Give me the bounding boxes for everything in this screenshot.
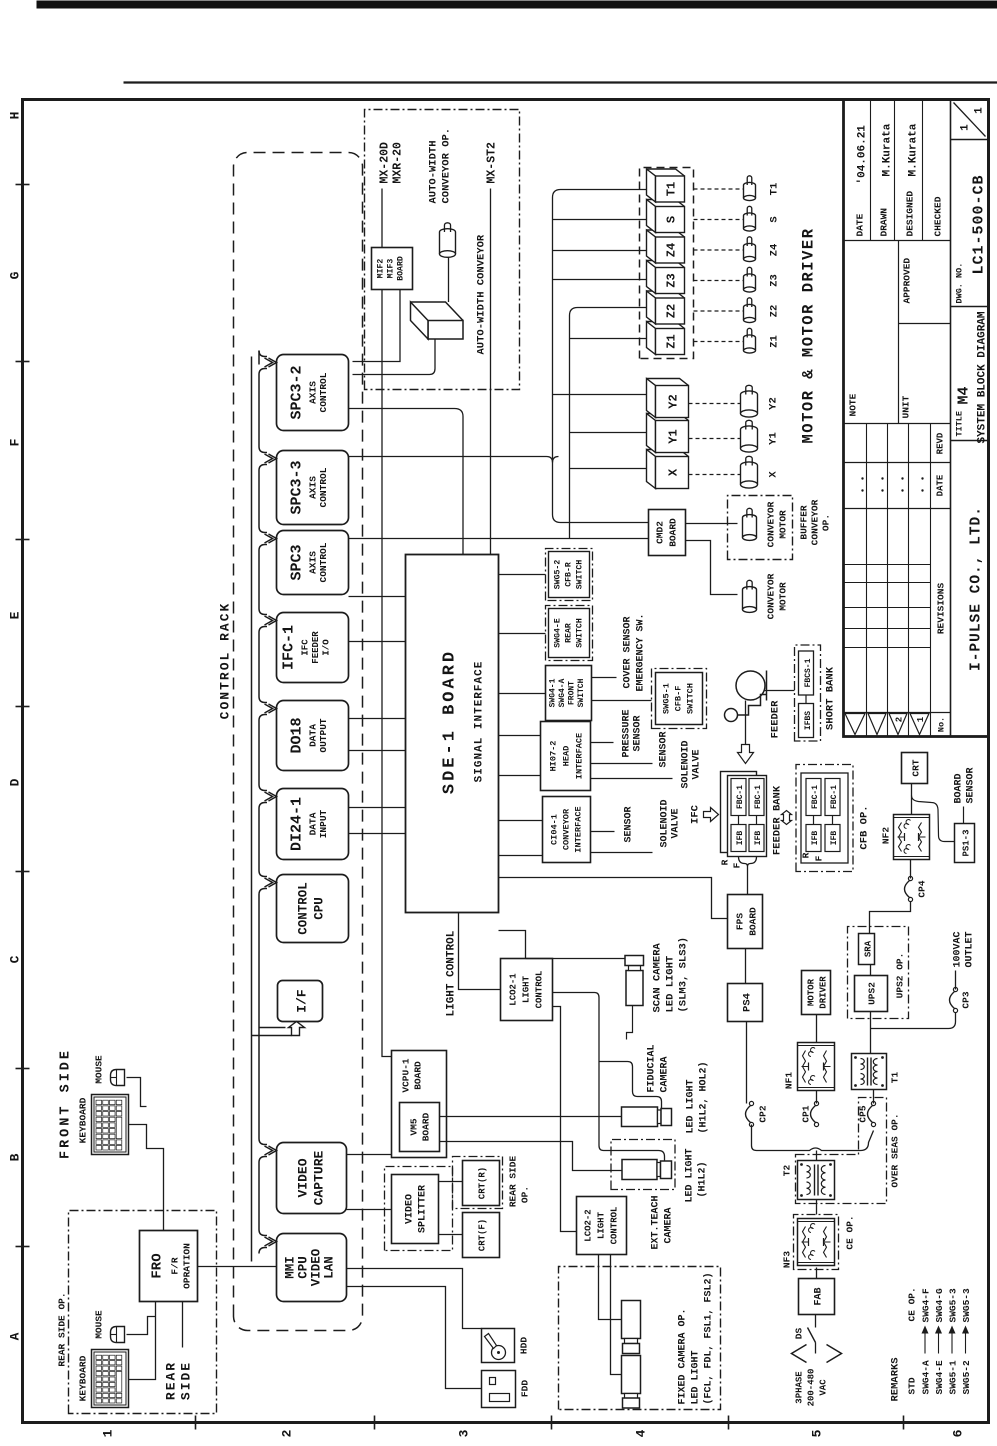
wire SPC3-3 brace stem	[348, 455, 546, 457]
svg-text:FEEDER BANK: FEEDER BANK	[771, 785, 783, 855]
svg-text:SWG4-A: SWG4-A	[920, 1359, 931, 1394]
breaker CP2	[749, 1122, 753, 1126]
svg-text:OPRATION: OPRATION	[181, 1242, 192, 1288]
svg-text:DATE: DATE	[935, 474, 945, 496]
breaker CP5	[871, 1122, 875, 1126]
svg-text:FPS: FPS	[734, 912, 745, 929]
svg-text:OVER SEAS OP.: OVER SEAS OP.	[889, 1113, 900, 1187]
wire CP4 to NF2	[909, 859, 911, 878]
svg-text:200-480: 200-480	[806, 1368, 816, 1406]
svg-text:1: 1	[973, 106, 985, 113]
VIDEO SPLITTER chain box	[384, 1166, 452, 1250]
svg-text:SPC3: SPC3	[288, 544, 305, 580]
auto-width conveyor 3D box	[410, 302, 463, 339]
svg-text:STD: STD	[906, 1377, 917, 1394]
svg-text:I/F: I/F	[294, 989, 309, 1013]
svg-text:A: A	[7, 1332, 22, 1340]
svg-text:SWG4-E: SWG4-E	[934, 1359, 945, 1394]
svg-text:CONVEYOR: CONVEYOR	[765, 573, 776, 619]
wire NF1 to MOTOR DRIVER	[815, 1014, 817, 1042]
svg-text:CONTROL: CONTROL	[318, 542, 329, 582]
svg-text:SRA: SRA	[863, 940, 873, 957]
svg-text:DESIGNED: DESIGNED	[904, 190, 915, 236]
svg-text:EXT.TEACH: EXT.TEACH	[650, 1195, 661, 1249]
line B branch to Z1	[569, 337, 646, 339]
svg-text:SENSOR: SENSOR	[658, 731, 669, 767]
svg-text:DO18: DO18	[288, 717, 305, 753]
svg-text:LIGHT: LIGHT	[596, 1211, 606, 1239]
svg-text:DS: DS	[793, 1327, 804, 1339]
svg-text:1: 1	[959, 123, 971, 130]
driver module T1	[646, 169, 684, 202]
mouse icon rear	[110, 1326, 124, 1342]
wire SDE-1 to FPS BOARD	[498, 877, 727, 918]
svg-text:SDE-1 BOARD: SDE-1 BOARD	[440, 648, 459, 793]
staff rows	[869, 99, 871, 240]
line B branch to Y1	[569, 431, 646, 433]
svg-text:INPUT: INPUT	[318, 809, 329, 838]
wire PS1-3 to board sensor label	[962, 806, 964, 823]
svg-text:OP.: OP.	[519, 1185, 530, 1202]
scan camera icon	[626, 970, 643, 1005]
svg-text:DATA: DATA	[307, 723, 318, 746]
board MMI CPU VIDEO LAN	[276, 1233, 346, 1301]
svg-text:IFBS: IFBS	[804, 710, 813, 729]
svg-text:SIGNAL INTERFACE: SIGNAL INTERFACE	[473, 660, 485, 782]
svg-text:DI24-1: DI24-1	[288, 796, 305, 850]
motor S	[743, 215, 755, 228]
svg-text:T2: T2	[781, 1164, 792, 1176]
motor Z4	[743, 246, 755, 259]
CFB FBC-1 row1	[806, 778, 821, 815]
NF1 filter	[797, 1042, 834, 1090]
driver module Z1	[646, 321, 684, 354]
disconnect DS	[814, 1342, 816, 1353]
svg-text:LED LIGHT: LED LIGHT	[684, 1148, 695, 1202]
scan artifact: black bar at right page edge	[36, 0, 997, 8]
svg-text:REAR SIDE: REAR SIDE	[507, 1155, 518, 1207]
sensor labels under HI07-2	[590, 741, 613, 743]
MOTOR DRIVER box	[801, 970, 830, 1014]
SWG4-1 SWG4-A FRONT SWITCH	[545, 665, 591, 720]
branch scan camera body	[626, 1005, 632, 1039]
svg-text:(H1L2): (H1L2)	[696, 1161, 708, 1197]
mouse icon front	[110, 1069, 124, 1085]
svg-text:PS1-3: PS1-3	[961, 829, 971, 856]
motor Y1	[740, 429, 757, 448]
line B branch to X	[569, 467, 646, 469]
REAR SIDE OP chain box around CRT(R)	[452, 1156, 502, 1208]
svg-text:CI04-1: CI04-1	[549, 814, 559, 845]
wire CP5 to T1	[872, 1089, 874, 1103]
conveyor motor (std)	[742, 589, 756, 609]
wire CP1 to NF1	[815, 1090, 817, 1103]
fixed camera 2 icon	[621, 1355, 640, 1393]
svg-text:SENSOR: SENSOR	[965, 767, 976, 803]
svg-text:D: D	[7, 778, 22, 786]
svg-text:1: 1	[100, 1429, 115, 1437]
svg-text:CP2: CP2	[757, 1105, 768, 1122]
buffer conveyor motor	[742, 517, 756, 537]
svg-text:AXIS: AXIS	[307, 380, 318, 403]
wire CP3 to outlet label	[954, 970, 956, 989]
board SPC3-3 AXIS CONTROL	[276, 450, 348, 524]
svg-text:SWG5-3: SWG5-3	[961, 1287, 972, 1322]
svg-text:CONTROL: CONTROL	[318, 467, 329, 507]
SRA box	[858, 933, 874, 964]
svg-text:5: 5	[809, 1429, 824, 1437]
BUFFER CONVEYOR OP. chain box	[727, 495, 792, 559]
svg-text:SCAN CAMERA: SCAN CAMERA	[651, 942, 663, 1012]
feeder bank IFB row1	[731, 824, 746, 851]
svg-text:MOUSE: MOUSE	[93, 1054, 104, 1083]
svg-text:CE OP.: CE OP.	[844, 1215, 855, 1249]
svg-text:FBC-1: FBC-1	[811, 784, 820, 808]
board CONTROL CPU	[276, 874, 348, 942]
svg-text:VAC: VAC	[818, 1378, 828, 1395]
svg-text:100VAC: 100VAC	[952, 931, 963, 967]
svg-text:BOARD: BOARD	[412, 1060, 423, 1089]
svg-text:COVER SENSOR: COVER SENSOR	[622, 616, 633, 688]
svg-text:FRONT SIDE: FRONT SIDE	[58, 1047, 73, 1158]
branch to fiducial led	[599, 1061, 662, 1108]
svg-text:CFB-F: CFB-F	[673, 685, 683, 711]
UPS2 OP. chain box	[847, 926, 908, 1018]
collector line B y=569	[569, 307, 646, 538]
feeder bank FBC-1 row1	[731, 778, 746, 815]
svg-text:OUTLET: OUTLET	[964, 931, 975, 967]
svg-text:UPS2 OP.: UPS2 OP.	[894, 952, 905, 998]
svg-text:3PHASE: 3PHASE	[794, 1370, 804, 1403]
svg-text:PS4: PS4	[741, 993, 753, 1012]
svg-text:T1: T1	[664, 181, 678, 195]
svg-text:LAN: LAN	[322, 1256, 336, 1279]
svg-text:MMI: MMI	[283, 1256, 297, 1279]
wire SDE-1 to MX-ST2	[489, 188, 491, 554]
svg-text:F: F	[7, 438, 22, 446]
svg-text:No.: No.	[936, 716, 946, 731]
svg-text:REAR SIDE OP.: REAR SIDE OP.	[56, 1292, 67, 1366]
svg-text:MXR-20: MXR-20	[391, 141, 404, 183]
svg-text:CPU: CPU	[312, 897, 326, 920]
wire feeder to block arrow	[744, 700, 746, 744]
bottom row cells	[950, 439, 988, 441]
svg-text:CPU: CPU	[296, 1256, 310, 1279]
CRT(R) box	[462, 1160, 499, 1205]
SHORT BANK chain box	[794, 645, 820, 741]
svg-text:FIDUCIAL: FIDUCIAL	[646, 1044, 657, 1092]
wire FAB to NF3	[815, 1267, 817, 1278]
svg-text:AUTO-WIDTH: AUTO-WIDTH	[427, 140, 439, 203]
wires rear keyboard/mouse to FRO	[128, 1301, 155, 1379]
LCO2-2 LIGHT CONTROL box	[576, 1196, 626, 1254]
board SPC3 AXIS CONTROL	[276, 530, 348, 594]
wire UPS2 to SRA	[869, 964, 871, 975]
svg-text:SENSOR: SENSOR	[623, 806, 634, 842]
svg-text:IFC: IFC	[689, 804, 701, 824]
svg-text:SWG5-2: SWG5-2	[961, 1359, 972, 1394]
svg-text:FDD: FDD	[519, 1379, 530, 1396]
bus inner line with taps into each board	[258, 1252, 260, 1254]
svg-text:MX-ST2: MX-ST2	[485, 141, 498, 183]
svg-text:(SLM3, SLS3): (SLM3, SLS3)	[677, 936, 689, 1012]
svg-text:SOLENOID: SOLENOID	[659, 799, 670, 847]
svg-text:MIF3: MIF3	[386, 258, 395, 278]
OVER SEAS OP. chain outline (L shape)	[795, 1097, 886, 1203]
svg-text:CRT(F): CRT(F)	[477, 1218, 487, 1250]
sensor labels under CI04-1	[590, 830, 614, 832]
svg-text:CONTROL: CONTROL	[296, 882, 310, 935]
svg-text:CP4: CP4	[916, 880, 927, 897]
svg-text:MX-20D: MX-20D	[378, 141, 391, 183]
svg-text:KEYBOARD: KEYBOARD	[77, 1097, 88, 1143]
svg-text:CONVEYOR: CONVEYOR	[765, 501, 776, 547]
svg-text:SIDE: SIDE	[178, 1360, 193, 1399]
board DI24-1 DATA INPUT	[276, 788, 348, 859]
svg-text:Z4: Z4	[768, 243, 780, 256]
svg-text:FBC-1: FBC-1	[736, 784, 745, 808]
wire front switch to SWG5-1	[591, 699, 651, 701]
T1 transformer	[851, 1053, 886, 1089]
svg-text:CAPTURE: CAPTURE	[311, 1150, 326, 1205]
auto-width conveyor motor cylinder	[439, 232, 455, 254]
wire feeder to short bank	[764, 689, 794, 691]
svg-text:SWITCH: SWITCH	[575, 618, 584, 648]
svg-text:S: S	[664, 215, 678, 222]
svg-text:REVD: REVD	[935, 432, 945, 454]
wire VIDEO CAPTURE to VCPU-1	[346, 1153, 391, 1155]
CFB OP. chain box	[796, 764, 853, 871]
svg-text:Z3: Z3	[768, 274, 780, 287]
svg-text:HEAD: HEAD	[561, 745, 571, 766]
svg-text:4: 4	[633, 1429, 648, 1437]
SWG4-E REAR SWITCH chain box	[545, 605, 592, 660]
svg-text:SHORT BANK: SHORT BANK	[824, 666, 836, 730]
breaker CP4	[908, 897, 912, 901]
svg-text:SWG5-2: SWG5-2	[553, 559, 562, 589]
svg-text:M.Kurata: M.Kurata	[907, 123, 919, 176]
VIDEO SPLITTER	[391, 1174, 438, 1243]
svg-text:CONVEYOR: CONVEYOR	[809, 499, 820, 545]
motor X	[740, 465, 757, 484]
fiducial camera icon	[621, 1107, 657, 1127]
keyboard icon rear	[91, 1349, 128, 1407]
svg-text:DRAWN: DRAWN	[878, 207, 889, 236]
svg-text:SYSTEM BLOCK DIAGRAM: SYSTEM BLOCK DIAGRAM	[976, 311, 988, 443]
CFB IFB row1	[806, 824, 821, 851]
svg-text:Z2: Z2	[768, 304, 780, 317]
svg-text:KEYBOARD: KEYBOARD	[77, 1355, 88, 1401]
svg-text:IFC-1: IFC-1	[280, 624, 297, 669]
NOTE cell	[897, 240, 899, 423]
svg-text:TITLE: TITLE	[954, 410, 964, 436]
svg-text:SWG5-1: SWG5-1	[947, 1359, 958, 1394]
svg-text:REAR: REAR	[564, 623, 573, 643]
svg-text:SWITCH: SWITCH	[685, 683, 695, 714]
driver Y2	[646, 378, 688, 417]
svg-text:R: R	[800, 852, 811, 858]
breaker CP3	[953, 1008, 957, 1012]
motor Z3	[743, 276, 755, 289]
breaker CP1	[814, 1122, 818, 1126]
svg-text:LED LIGHT: LED LIGHT	[685, 1079, 696, 1133]
svg-text:SWG4-G: SWG4-G	[934, 1287, 945, 1322]
svg-text:CONTROL: CONTROL	[318, 372, 329, 412]
svg-text:VIDEO: VIDEO	[404, 1193, 415, 1223]
svg-text:LIGHT CONTROL: LIGHT CONTROL	[445, 930, 457, 1016]
svg-text:FRO: FRO	[149, 1253, 165, 1278]
brace feeder bank to FPS wire	[738, 856, 756, 866]
driver module Z3	[646, 260, 684, 293]
svg-text:F/R: F/R	[169, 1257, 180, 1274]
wire rack board to SDE-1 at x=728	[348, 717, 405, 719]
wire rack board to SDE-1 at x=805	[348, 640, 405, 642]
FEEDER BANK shadow rect	[720, 771, 756, 852]
motor T1	[743, 185, 755, 198]
svg-text:VCPU-1: VCPU-1	[400, 1058, 411, 1093]
title block horizontal lines	[949, 99, 951, 736]
svg-text:AXIS: AXIS	[307, 550, 318, 573]
CFB inner rect	[801, 773, 848, 863]
VM5 BOARD	[399, 1102, 439, 1151]
sheet 1/1	[953, 102, 985, 136]
wire SDE-1 to interface board at x=753	[498, 692, 545, 694]
svg-text:LCO2-2: LCO2-2	[583, 1209, 593, 1241]
svg-text:T1: T1	[768, 182, 780, 195]
svg-text:VALVE: VALVE	[670, 808, 681, 838]
svg-text:BOARD: BOARD	[420, 1112, 431, 1141]
wire SDE-1 to interface board at x=711	[498, 734, 540, 736]
CRT box	[901, 752, 927, 783]
svg-text:MOUSE: MOUSE	[93, 1309, 104, 1338]
feeder bank IFB row2	[749, 824, 764, 851]
svg-text:LED LIGHT: LED LIGHT	[690, 1350, 701, 1404]
wire SRA to CP4	[869, 901, 910, 933]
svg-text:BUFFER: BUFFER	[798, 505, 809, 540]
svg-text:MOTOR & MOTOR DRIVER: MOTOR & MOTOR DRIVER	[799, 227, 817, 443]
wire rack board to SDE-1 at x=850	[348, 595, 405, 597]
wire CMD2 to buffer conveyor motor	[685, 522, 737, 524]
T2 transformer	[797, 1160, 834, 1199]
svg-text:M4: M4	[955, 386, 972, 404]
wire SDE-1 to interface board at x=671	[498, 774, 540, 776]
svg-text:Z1: Z1	[768, 335, 780, 348]
svg-text:CFB-R: CFB-R	[564, 562, 573, 587]
svg-text:IFC: IFC	[300, 638, 310, 655]
svg-text:SWG5-3: SWG5-3	[947, 1287, 958, 1322]
svg-text:EMERGENCY SW.: EMERGENCY SW.	[635, 613, 646, 691]
driver X	[646, 449, 688, 488]
collector line A y=552	[552, 189, 650, 522]
svg-text:CRT: CRT	[910, 759, 921, 776]
svg-text:CONTROL: CONTROL	[609, 1206, 619, 1244]
svg-text:BOARD: BOARD	[396, 256, 405, 281]
driver Y1	[646, 413, 688, 452]
wire rack board to SDE-1 at x=613	[348, 832, 405, 834]
wire CP2 junction line down to CP5 with hop	[751, 1124, 873, 1150]
NF3 filter	[793, 1214, 838, 1269]
svg-text:CAMERA: CAMERA	[663, 1207, 674, 1243]
wire T2 to junction	[815, 1150, 817, 1160]
svg-text:BOARD: BOARD	[667, 517, 678, 546]
wire rear side to FRO	[181, 1301, 183, 1347]
motor Z2	[743, 307, 755, 320]
LCO2-1 LIGHT CONTROL box	[500, 958, 552, 1020]
svg-text:(FCL, FDL, FSL1, FSL2): (FCL, FDL, FSL1, FSL2)	[702, 1272, 714, 1404]
svg-text:SWG4-A: SWG4-A	[558, 678, 567, 707]
fixed camera 1 icon	[621, 1300, 640, 1338]
wire SDE-1 to interface board at x=872	[498, 573, 545, 575]
CFB IFB row2	[825, 824, 840, 851]
IFBS box	[798, 703, 813, 737]
svg-text:CFB OP.: CFB OP.	[858, 805, 870, 849]
svg-text:CHECKED: CHECKED	[932, 196, 943, 236]
svg-text:SWITCH: SWITCH	[575, 559, 584, 589]
svg-text:DRIVER: DRIVER	[818, 975, 828, 1008]
wires MMI to HDD FDD	[346, 1268, 481, 1328]
svg-text:OP.: OP.	[820, 513, 831, 530]
wire SDE-1 to SPC3-2	[348, 408, 463, 554]
svg-text:MOTOR: MOTOR	[777, 509, 788, 538]
svg-text:NF3: NF3	[781, 1250, 792, 1267]
svg-text:IFB: IFB	[754, 830, 763, 845]
wire SDE-1 to interface board at x=626	[498, 819, 542, 821]
svg-text:BOARD: BOARD	[747, 906, 758, 935]
svg-text:H: H	[7, 111, 22, 119]
svg-text:1: 1	[916, 716, 926, 722]
motor Z1	[743, 337, 755, 350]
svg-text:VM5: VM5	[408, 1118, 419, 1135]
svg-text:SWG4-E: SWG4-E	[553, 618, 562, 648]
svg-text:NF1: NF1	[783, 1071, 794, 1088]
3 phase supply chevrons	[791, 1344, 806, 1362]
svg-text:SENSOR: SENSOR	[632, 715, 643, 751]
svg-text:I-PULSE CO., LTD.: I-PULSE CO., LTD.	[968, 506, 984, 671]
wire branch to PS1-3	[911, 795, 954, 841]
wires front keyboard/mouse to FRO	[128, 1124, 163, 1230]
EXT.TEACH chain box	[611, 1139, 675, 1189]
line A branch to S	[552, 218, 646, 220]
wires splitter to CRTs	[438, 1180, 462, 1182]
line A branch to Z3	[552, 278, 646, 280]
svg-text:UPS2: UPS2	[866, 981, 877, 1004]
board VIDEO CAPTURE	[276, 1142, 346, 1213]
FPS BOARD	[727, 894, 762, 948]
wire LCO2-1 to led lights	[552, 992, 664, 1160]
wire SDE-1 to interface board at x=813	[498, 632, 545, 634]
svg-text:SOLENOID: SOLENOID	[680, 740, 691, 788]
svg-text:FAB: FAB	[813, 1287, 824, 1305]
wire FRO to MMI	[197, 1265, 276, 1267]
wires LCO2-2 to fixed cameras	[598, 1254, 621, 1319]
CRT(F) box	[462, 1212, 499, 1257]
line A branch to Y2	[552, 393, 646, 395]
svg-text:VALVE: VALVE	[691, 749, 702, 779]
svg-text:CE OP.: CE OP.	[906, 1287, 917, 1321]
HDD icon	[481, 1328, 514, 1362]
svg-text:SPLITTER: SPLITTER	[417, 1184, 428, 1232]
CI04-1 CONVEYOR INTERFACE	[542, 796, 590, 862]
svg-text:MIF2: MIF2	[376, 258, 385, 278]
svg-text:VIDEO: VIDEO	[309, 1248, 323, 1286]
wire CP2 to PS4	[745, 1021, 747, 1103]
svg-text:FBC-1: FBC-1	[830, 784, 839, 808]
svg-text:NF2: NF2	[880, 826, 891, 843]
NF2 filter	[893, 814, 929, 859]
svg-text:REMARKS: REMARKS	[889, 1357, 901, 1401]
svg-text:HI07-2: HI07-2	[548, 740, 558, 771]
SWG5-1 CFB-F SWITCH chain box	[651, 668, 706, 728]
